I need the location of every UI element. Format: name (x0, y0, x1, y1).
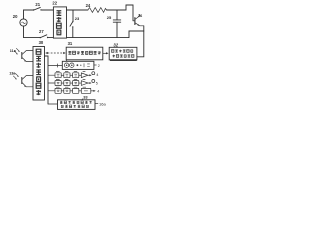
svg-text:30: 30 (39, 40, 44, 45)
svg-text:16a: 16a (99, 101, 106, 106)
svg-text:31: 31 (68, 41, 73, 46)
svg-text:23: 23 (75, 16, 80, 21)
svg-text:5: 5 (96, 82, 98, 86)
svg-text:22: 22 (52, 1, 57, 6)
svg-text:4: 4 (97, 90, 99, 94)
svg-text:32: 32 (113, 42, 118, 47)
svg-text:33: 33 (83, 94, 88, 99)
svg-text:21: 21 (35, 2, 40, 7)
svg-text:2: 2 (98, 64, 100, 68)
svg-text:26: 26 (138, 13, 143, 18)
svg-text:20: 20 (13, 14, 18, 19)
svg-text:11a: 11a (10, 49, 17, 53)
svg-text:4: 4 (96, 73, 98, 77)
svg-text:24: 24 (86, 3, 91, 8)
svg-text:13a: 13a (9, 71, 16, 75)
svg-text:27: 27 (39, 29, 44, 34)
svg-text:25: 25 (107, 15, 112, 20)
